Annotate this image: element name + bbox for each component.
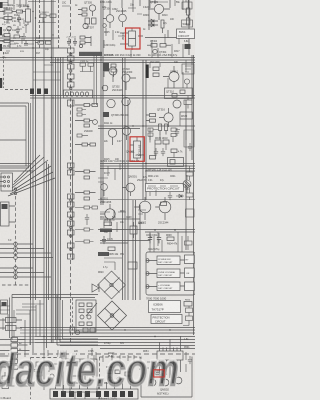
wire diagonal fan bottom-left	[8, 155, 55, 196]
transistor QT317	[101, 184, 108, 196]
left column extra labels	[2, 5, 25, 59]
resistor network QT305 bias	[78, 8, 87, 16]
bottom connector strip	[50, 389, 138, 399]
diode triangle near x95	[92, 284, 99, 292]
wire stubs upper-left	[8, 6, 34, 44]
board box behind watermark	[63, 359, 97, 392]
connectors left edge y300	[1, 300, 8, 314]
block input ovals	[146, 259, 149, 289]
transistor QT316	[157, 108, 173, 128]
wire left-edge connector stubs	[0, 244, 14, 277]
transistor QT308	[103, 97, 130, 117]
capacitor C644	[168, 192, 172, 200]
node pads on rail	[14, 188, 16, 195]
resistor ladder x188	[187, 0, 190, 25]
right edge parts column y300-330	[183, 306, 193, 326]
wire rail x30.5	[30, 103, 32, 345]
capacitor C315	[185, 44, 191, 49]
component box W162	[180, 112, 193, 119]
wire top right corner	[150, 0, 183, 10]
component box right edge y210	[186, 209, 195, 217]
transistor QT309	[148, 0, 170, 20]
wire bottom extras	[20, 340, 96, 390]
resistor R684	[104, 220, 115, 226]
board edge tab 3	[0, 44, 2, 51]
label QM502	[157, 388, 169, 396]
wire right-mid extra	[150, 60, 186, 158]
wire verticals y232-252	[150, 232, 182, 252]
component block VR101	[24, 6, 31, 27]
capacitor C652	[188, 356, 192, 364]
label strip dark	[100, 229, 112, 233]
wire bus extensions	[12, 330, 60, 343]
resistor R315	[147, 44, 157, 48]
dashed rail left-mid	[15, 196, 17, 285]
transistor QT315	[173, 100, 181, 108]
wire risers bottom connector	[56, 381, 131, 389]
wire horizontal y219	[100, 218, 140, 220]
parts right of chain y205-250	[75, 206, 98, 209]
component box right y64	[182, 64, 194, 74]
transistor QM506	[162, 379, 169, 386]
cluster c3	[75, 143, 96, 146]
resistor R121	[35, 41, 44, 44]
connector ladder left bottom	[0, 338, 30, 370]
component inside highlight 2	[130, 137, 142, 162]
wire horizontal band y126 right half	[98, 126, 195, 129]
transistor QT318	[104, 67, 133, 82]
resistor R164	[171, 149, 183, 154]
transistor QM301	[122, 183, 135, 196]
label QM301 upper	[126, 150, 145, 158]
small parts mid-bottom	[107, 370, 131, 381]
transistor QM303	[138, 197, 171, 225]
wire dashed rail C (board boundary)	[70, 0, 72, 345]
wire vertical rail bundle left	[33, 0, 49, 353]
resistor column x160	[159, 124, 168, 135]
bridge rectifier BR1	[98, 271, 126, 299]
wire verticals x94-96	[94, 55, 97, 105]
transistor QM501	[100, 204, 115, 226]
board edge tab 2	[0, 27, 2, 35]
label texts bottom-left	[19, 342, 22, 351]
variable resistor VR651 hatched	[183, 175, 191, 193]
wire oval feeds to rails	[17, 244, 53, 277]
inner board box upper (nested)	[57, 295, 98, 345]
bridge rectifier BR2	[98, 301, 127, 330]
parts behind letter d bottom-left	[2, 372, 15, 389]
resistor R609	[75, 228, 94, 231]
component box C162	[168, 158, 184, 167]
transistor QT313	[153, 49, 167, 54]
black bus bar right	[146, 65, 149, 79]
resistor R603	[161, 202, 167, 206]
node dots right	[122, 95, 187, 231]
box top right corner	[182, 0, 192, 13]
label texts lower-mid	[98, 211, 158, 274]
resistor R109	[0, 35, 14, 48]
label cluster top-left texts	[3, 3, 78, 56]
resistor R307	[80, 36, 91, 44]
resistor R605	[108, 247, 119, 256]
component W161	[182, 20, 193, 27]
label texts mid band x100-140	[104, 123, 148, 179]
transistor QM507	[175, 377, 182, 384]
watermark dacite.com	[0, 343, 179, 396]
label texts bottom	[60, 339, 190, 385]
wire horizontal bus y326-348	[20, 328, 195, 349]
wire vertical rails center	[101, 0, 146, 300]
capacitor C305	[85, 18, 96, 24]
diode D641	[176, 194, 184, 197]
transistor right y81	[184, 79, 189, 88]
transistor Q101	[7, 26, 11, 34]
wire crossing grid left-mid	[33, 65, 61, 80]
resistor R604	[167, 237, 178, 246]
resistor R103	[17, 10, 27, 13]
block wiring	[146, 260, 185, 287]
label box IC8506 TA7317P	[149, 301, 181, 313]
capacitor C121	[24, 40, 28, 45]
label box PROTECTION CIRCUIT 2	[151, 315, 182, 324]
resistor R111	[14, 35, 24, 38]
capacitor C103	[16, 26, 20, 34]
wire horizontal y240 center	[100, 241, 150, 244]
resistor R610	[75, 240, 94, 243]
capacitor bottom C703	[34, 366, 38, 374]
bottom board double edge	[10, 295, 99, 341]
dashed board box bottom-left	[31, 358, 63, 400]
tiny parts row y64-80 left	[103, 63, 116, 77]
label QM501	[100, 197, 112, 205]
wire vertical rails right	[149, 0, 194, 335]
component block left J201	[1, 202, 16, 226]
wire fragments right mid	[100, 186, 178, 216]
capacitor C307	[79, 36, 91, 48]
resistor right y242	[185, 236, 193, 250]
diode D302	[148, 23, 158, 27]
transistor QT302	[102, 74, 136, 92]
wire horizontal y199	[98, 199, 195, 201]
label B.Board	[98, 397, 117, 400]
label QM301	[128, 175, 147, 183]
resistor R654 right edge	[184, 300, 192, 307]
wire nested corners mid-left	[0, 164, 33, 301]
capacitor C341	[154, 148, 158, 156]
resistor R122	[46, 41, 52, 44]
connector pad row J102	[64, 90, 93, 98]
wire horizontal band y58-63 full width	[0, 58, 195, 63]
resistor R105	[0, 17, 16, 25]
wire bottom mid risers	[58, 350, 134, 399]
transistor QT311	[103, 24, 107, 28]
label row mid band	[104, 53, 141, 57]
label band y165-171 right	[100, 160, 141, 163]
cluster c5	[75, 191, 96, 200]
left column extra stubs	[6, 18, 24, 51]
connector ovals column B group2	[14, 266, 17, 279]
block POWER SWITCH DET	[157, 256, 180, 265]
label box BIAS CIRCUIT	[177, 29, 195, 39]
label 7000 7000 1000	[146, 297, 167, 301]
capacitor C343	[161, 148, 165, 156]
capacitor C309 pair	[66, 37, 77, 47]
block diagram outer box	[146, 252, 195, 295]
wire dashed horizontal board edge y354	[0, 353, 195, 355]
dashed board box bottom-mid	[100, 357, 141, 399]
dashed board corner bottom-left	[2, 284, 30, 286]
parts in dashed board bottom-left	[36, 362, 58, 378]
diode D301	[148, 19, 158, 23]
wire lower-mid extras	[104, 210, 146, 270]
highlight box 3	[154, 370, 165, 377]
top-left extra text rows	[2, 6, 30, 43]
connector row bottom-left cluster	[5, 89, 48, 95]
label row y170	[146, 169, 172, 172]
parts cluster x78-95 y60-75	[80, 61, 94, 72]
transistor QM505	[149, 379, 156, 386]
pad cluster bottom of board	[0, 173, 13, 191]
resistor R313	[161, 20, 164, 33]
board outline bottom-right	[141, 357, 192, 398]
wire vertical x63	[62, 57, 64, 95]
wire top stubs	[8, 0, 26, 8]
top right text fragments	[100, 2, 181, 9]
cluster c2 transistor pair	[75, 119, 97, 133]
cluster c4	[75, 170, 96, 179]
wire top-right verticals	[110, 0, 155, 12]
component in highlight 3	[156, 371, 162, 375]
wire vertical rail bundle mid-left	[51, 0, 60, 343]
transistor QT307	[83, 23, 95, 29]
wire risers above ladder	[25, 300, 40, 345]
parts x30-60 y12-28	[38, 12, 56, 23]
switch block left SW501	[0, 318, 22, 331]
node dots various	[43, 59, 170, 340]
resistor R166	[150, 156, 156, 160]
capacitor C610	[148, 233, 152, 243]
component box QT310	[165, 88, 193, 99]
resistor rows x75-98 y108-138	[77, 108, 88, 137]
resistor R107	[0, 34, 10, 37]
wire rail beside dashed C	[72, 100, 74, 260]
wire dashed rail B	[58, 0, 60, 50]
resistor R101	[0, 7, 16, 13]
resistor right y100	[184, 96, 192, 109]
label strip GT306	[79, 52, 114, 57]
capacitor C605	[102, 236, 113, 244]
wire IC area extras	[147, 352, 186, 372]
capacitor C333	[188, 143, 192, 151]
wire horizontal band y163-171	[100, 164, 195, 172]
box outline right y130-148	[184, 130, 194, 147]
parts right y125-165	[148, 128, 180, 143]
highlight box 2	[130, 137, 144, 162]
wire bias feed	[145, 30, 177, 38]
resistor R311 inside highlight	[123, 28, 136, 50]
board cluster inside bottom box	[73, 298, 97, 336]
resistor R321	[153, 67, 159, 77]
wire verticals right column	[152, 34, 183, 58]
capacitor C331	[175, 128, 179, 136]
highlight box 1	[126, 28, 141, 49]
board edge tab 1	[0, 2, 3, 8]
wire horizontals left y310-320	[0, 306, 36, 314]
board outline mid-left	[0, 103, 29, 168]
IC TA7317P body	[157, 348, 183, 364]
component W160	[155, 138, 169, 144]
right edge parts y170-200	[186, 166, 193, 200]
wire dashed rail A	[39, 0, 41, 48]
component row under box	[70, 303, 97, 335]
resistor R331	[146, 114, 156, 123]
texture labels right mid	[100, 7, 176, 256]
node dots top-left	[32, 11, 58, 61]
board edge tab 4	[0, 78, 2, 88]
capacitor C102	[17, 15, 21, 23]
wire top edge	[28, 2, 70, 7]
capacitor C604	[130, 222, 137, 238]
label AWAY PLAY	[106, 352, 116, 369]
wire highlight area leads	[120, 33, 143, 44]
wire top corner joins	[0, 0, 51, 38]
transistor QM302	[134, 197, 151, 220]
transistor QT303	[116, 8, 127, 27]
left dashed board boundary	[3, 52, 5, 88]
capacitor C607	[85, 214, 89, 225]
resistor R316	[160, 44, 171, 48]
block AMP MUTE	[185, 282, 195, 291]
wire stubs top-mid	[104, 8, 142, 58]
capacitor C105	[22, 33, 26, 41]
transistor QT320 pair	[108, 127, 130, 145]
scan grain overlay	[0, 0, 195, 400]
cluster mid-right of dashed rail c1	[75, 104, 98, 107]
wire horizontal rails top	[0, 38, 67, 48]
wire horizontal y230 right	[98, 230, 195, 233]
label C.Board	[1, 396, 12, 400]
block OVER VOLTAGE DET	[157, 269, 180, 278]
transistor QT301	[103, 8, 114, 29]
block OR gate	[185, 268, 195, 278]
wire mid verticals extra	[98, 164, 120, 183]
transistor QT312	[163, 66, 179, 88]
transistor QT305	[84, 0, 96, 16]
block +- VOLTAGE DET	[157, 282, 180, 291]
wire horizontal band y95-98	[30, 96, 195, 99]
wires from IC pins	[160, 336, 181, 378]
connector chain on board boundary	[68, 48, 75, 259]
label texts top area	[104, 15, 189, 64]
label box PROTECTION CIRCUIT	[146, 184, 192, 192]
connector ovals column B group1	[8, 239, 17, 260]
component box x128 y262	[128, 262, 137, 269]
label band y53 right extension	[148, 53, 178, 57]
capacitor C611	[157, 233, 161, 243]
block RELAY	[185, 255, 195, 264]
bottom-left wires up from ladder	[3, 304, 44, 337]
